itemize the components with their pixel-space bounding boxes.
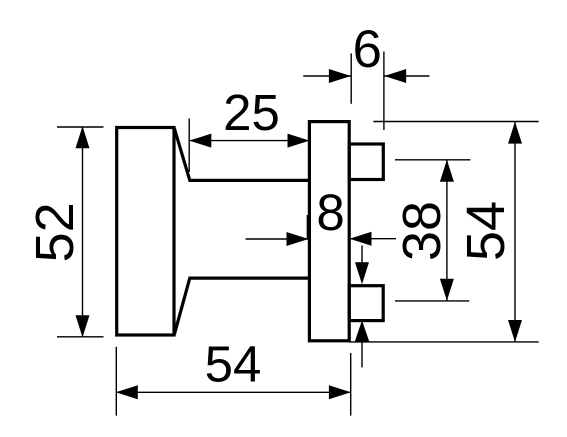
svg-text:54: 54	[205, 336, 262, 393]
pin up arrowhead	[355, 320, 370, 342]
dim 25 left arrowhead	[189, 134, 211, 148]
dim 6 right extension line	[383, 52, 385, 131]
dim 38 bottom extension line	[395, 300, 469, 302]
pin down arrowhead	[355, 262, 369, 284]
dim 54 right bottom arrowhead	[508, 320, 522, 342]
dim 54 bottom left arrowhead	[116, 385, 138, 399]
dim 54 right top arrowhead	[508, 122, 522, 144]
dim 6 left arrowhead	[329, 69, 351, 83]
dim 38 bottom arrowhead	[440, 279, 454, 301]
dim 54 bottom right extension line	[350, 353, 352, 416]
knob body	[117, 128, 174, 336]
bottom fixing pin	[349, 286, 383, 321]
mounting plate	[309, 122, 349, 341]
dim 8 left arrowhead	[287, 232, 309, 246]
shaft bottom edge	[189, 277, 310, 280]
dim 8 right arrowhead	[350, 232, 372, 246]
dim 54 right bottom extension line	[349, 341, 539, 343]
svg-text:54: 54	[456, 201, 516, 261]
dim 6 right line	[384, 75, 429, 77]
dim 52 dimension line	[82, 127, 84, 338]
top fixing pin	[349, 144, 383, 180]
dim 54 bottom right arrowhead	[329, 385, 351, 399]
dim 52 top extension line	[57, 126, 104, 128]
dim 25 left extension line	[188, 119, 190, 173]
svg-text:38: 38	[392, 201, 452, 261]
dim 52 bottom extension line	[57, 336, 104, 338]
dim 25 right arrowhead	[288, 134, 310, 148]
shaft top edge	[189, 179, 310, 182]
dim 54 bottom left extension line	[115, 347, 117, 416]
dim 52 bottom arrowhead	[76, 315, 90, 337]
dim 54 bottom dimension line	[116, 391, 351, 393]
svg-text:8: 8	[316, 184, 344, 241]
dim 54 right top extension line	[373, 121, 538, 123]
knob neck top slant	[174, 128, 190, 180]
pin leader line up	[361, 342, 363, 367]
dim 8 left line	[246, 238, 309, 240]
svg-text:25: 25	[223, 84, 280, 141]
dim 38 top arrowhead	[440, 160, 454, 182]
knob neck bottom slant	[174, 278, 190, 335]
pin leader line down	[361, 246, 363, 264]
svg-text:52: 52	[25, 202, 85, 262]
svg-text:6: 6	[353, 20, 382, 79]
dim 8 right line	[350, 238, 397, 240]
dim 38 dimension line	[446, 160, 448, 301]
dim 6 left line	[303, 75, 351, 77]
dim 54 right dimension line	[514, 122, 516, 342]
dim 38 top extension line	[395, 159, 470, 161]
dim 8 extension stub	[306, 215, 308, 239]
dim 6 right arrowhead	[384, 69, 406, 83]
dim 52 top arrowhead	[76, 126, 90, 148]
dim 25 dimension line	[189, 140, 309, 142]
dim 6 left extension line	[350, 53, 352, 103]
